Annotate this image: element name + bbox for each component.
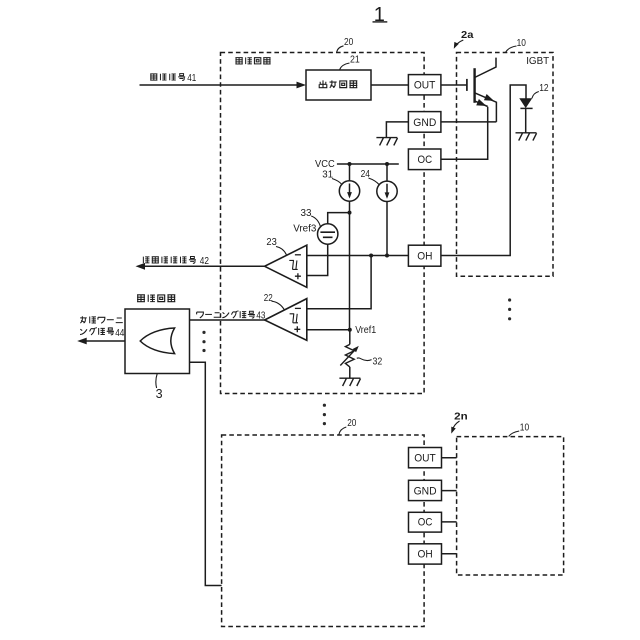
svg-text:20: 20 (347, 417, 356, 429)
svg-text:43: 43 (256, 310, 265, 321)
svg-text:GND: GND (414, 485, 437, 497)
svg-text:10: 10 (520, 422, 530, 434)
svg-text:OC: OC (418, 154, 433, 166)
svg-text:OUT: OUT (414, 80, 436, 92)
svg-text:VCC: VCC (315, 159, 335, 170)
svg-text:21: 21 (350, 53, 360, 65)
svg-text:31: 31 (322, 169, 333, 181)
svg-text:33: 33 (301, 207, 312, 219)
svg-text:41: 41 (187, 73, 196, 84)
svg-text:Vref1: Vref1 (355, 325, 376, 336)
svg-text:10: 10 (517, 37, 526, 49)
svg-text:22: 22 (264, 292, 273, 304)
svg-text:24: 24 (361, 168, 371, 180)
svg-text:IGBT: IGBT (526, 56, 549, 67)
svg-text:OC: OC (418, 517, 433, 529)
svg-text:42: 42 (200, 256, 210, 267)
svg-text:1: 1 (374, 4, 385, 26)
svg-text:3: 3 (156, 387, 163, 401)
svg-text:44: 44 (115, 328, 125, 339)
svg-text:OH: OH (417, 251, 432, 263)
svg-text:Vref3: Vref3 (293, 224, 317, 235)
svg-text:32: 32 (373, 355, 383, 367)
svg-text:20: 20 (344, 36, 353, 48)
svg-text:23: 23 (266, 236, 277, 248)
svg-text:OUT: OUT (414, 452, 436, 464)
svg-text:2a: 2a (461, 29, 474, 41)
svg-text:12: 12 (539, 82, 549, 94)
svg-text:OH: OH (418, 549, 433, 561)
svg-text:2n: 2n (454, 410, 468, 422)
svg-text:GND: GND (413, 117, 436, 129)
